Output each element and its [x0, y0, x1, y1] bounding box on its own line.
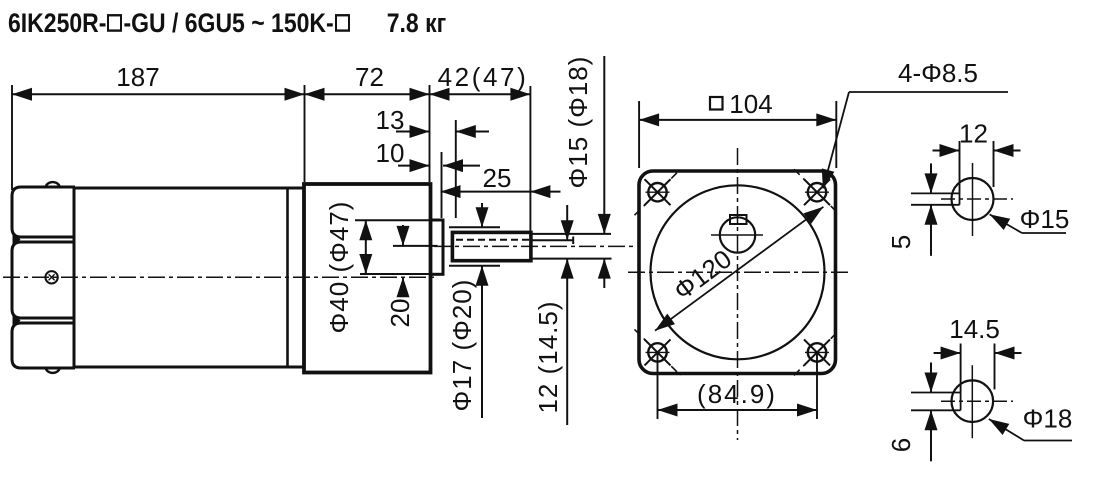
svg-text:104: 104 — [729, 89, 772, 119]
svg-text:187: 187 — [116, 62, 159, 92]
svg-text:5: 5 — [886, 235, 916, 249]
svg-text:20: 20 — [385, 299, 415, 328]
svg-text:12: 12 — [959, 119, 988, 149]
svg-text:13: 13 — [376, 105, 405, 135]
svg-text:Φ15: Φ15 — [1020, 204, 1070, 234]
svg-text:12 (14.5): 12 (14.5) — [533, 300, 563, 413]
svg-text:Φ17 (Φ20): Φ17 (Φ20) — [447, 279, 477, 412]
svg-text:72: 72 — [355, 62, 384, 92]
svg-text:25: 25 — [483, 163, 512, 193]
svg-text:Φ40 (Φ47): Φ40 (Φ47) — [324, 201, 354, 334]
svg-text:6: 6 — [886, 438, 916, 452]
svg-text:(84.9): (84.9) — [697, 379, 777, 409]
svg-text:14.5: 14.5 — [949, 314, 1000, 344]
svg-text:42(47): 42(47) — [438, 62, 529, 92]
svg-text:4-Φ8.5: 4-Φ8.5 — [898, 58, 978, 88]
svg-text:Φ15 (Φ18): Φ15 (Φ18) — [563, 56, 593, 189]
svg-text:Φ18: Φ18 — [1023, 404, 1073, 434]
svg-text:10: 10 — [376, 138, 405, 168]
